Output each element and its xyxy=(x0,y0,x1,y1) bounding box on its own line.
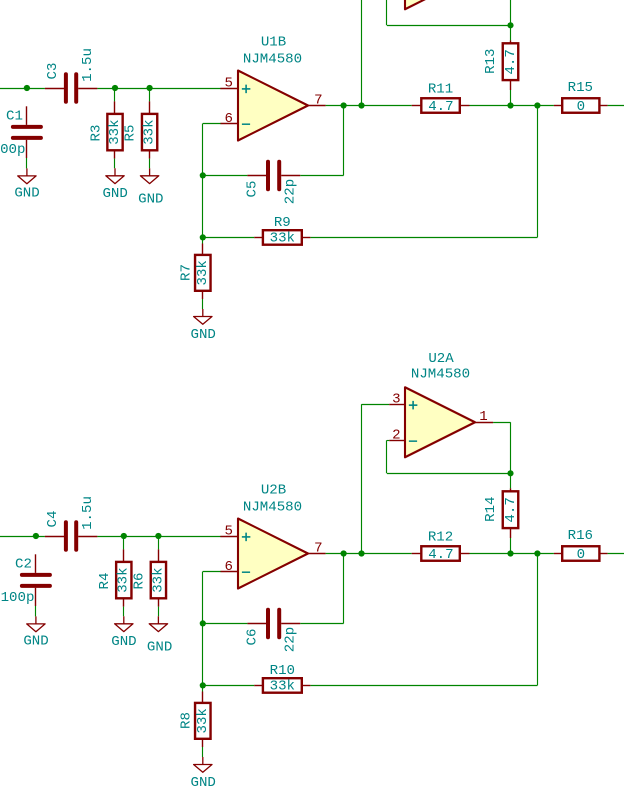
svg-text:C5: C5 xyxy=(245,181,261,198)
svg-text:R16: R16 xyxy=(568,528,593,544)
svg-text:C6: C6 xyxy=(245,629,261,646)
svg-text:22p: 22p xyxy=(283,627,299,652)
svg-text:6: 6 xyxy=(224,111,232,127)
svg-text:100p: 100p xyxy=(0,142,25,158)
svg-text:R4: R4 xyxy=(97,573,113,590)
svg-text:0: 0 xyxy=(577,547,585,563)
svg-text:GND: GND xyxy=(102,186,127,202)
svg-text:1.5u: 1.5u xyxy=(80,48,96,82)
svg-text:R12: R12 xyxy=(428,530,453,546)
svg-text:C3: C3 xyxy=(45,63,61,80)
svg-text:R11: R11 xyxy=(428,82,453,98)
svg-text:4.7: 4.7 xyxy=(428,547,453,563)
svg-text:U2A: U2A xyxy=(428,351,454,367)
svg-text:U1B: U1B xyxy=(261,35,286,51)
svg-text:NJM4580: NJM4580 xyxy=(411,367,470,383)
svg-text:33k: 33k xyxy=(142,119,158,144)
svg-text:R5: R5 xyxy=(123,125,139,142)
svg-text:4.7: 4.7 xyxy=(503,49,519,74)
svg-text:33k: 33k xyxy=(150,567,166,592)
svg-text:R3: R3 xyxy=(88,125,104,142)
svg-text:GND: GND xyxy=(191,327,216,343)
svg-text:100p: 100p xyxy=(1,590,35,606)
svg-text:R9: R9 xyxy=(274,215,291,231)
svg-text:33k: 33k xyxy=(116,567,132,592)
svg-text:U2B: U2B xyxy=(261,483,286,499)
svg-text:C1: C1 xyxy=(6,109,23,125)
svg-text:GND: GND xyxy=(14,186,39,202)
svg-text:1.5u: 1.5u xyxy=(80,496,96,530)
svg-text:5: 5 xyxy=(224,75,232,91)
svg-text:NJM4580: NJM4580 xyxy=(243,52,302,68)
svg-text:33k: 33k xyxy=(195,260,211,285)
svg-text:1: 1 xyxy=(479,409,487,425)
svg-text:33k: 33k xyxy=(107,119,123,144)
svg-text:R14: R14 xyxy=(483,497,499,522)
svg-text:R7: R7 xyxy=(179,264,195,281)
svg-text:7: 7 xyxy=(314,540,322,556)
svg-text:4.7: 4.7 xyxy=(503,497,519,522)
svg-text:NJM4580: NJM4580 xyxy=(243,500,302,516)
svg-text:R15: R15 xyxy=(568,80,593,96)
svg-text:6: 6 xyxy=(224,559,232,575)
svg-text:7: 7 xyxy=(314,92,322,108)
svg-text:33k: 33k xyxy=(270,679,295,695)
svg-text:GND: GND xyxy=(111,634,136,650)
svg-text:3: 3 xyxy=(392,392,400,408)
svg-text:2: 2 xyxy=(392,428,400,444)
svg-text:C4: C4 xyxy=(45,511,61,528)
svg-text:R10: R10 xyxy=(270,663,295,679)
svg-text:GND: GND xyxy=(191,775,216,791)
svg-text:22p: 22p xyxy=(283,179,299,204)
svg-text:GND: GND xyxy=(138,192,163,208)
svg-text:R13: R13 xyxy=(483,49,499,74)
svg-text:R8: R8 xyxy=(179,712,195,729)
svg-text:C2: C2 xyxy=(15,557,32,573)
svg-text:GND: GND xyxy=(23,634,48,650)
svg-text:33k: 33k xyxy=(195,708,211,733)
svg-text:R6: R6 xyxy=(132,573,148,590)
svg-text:0: 0 xyxy=(577,99,585,115)
svg-text:5: 5 xyxy=(224,523,232,539)
svg-text:33k: 33k xyxy=(270,231,295,247)
svg-text:4.7: 4.7 xyxy=(428,99,453,115)
svg-text:GND: GND xyxy=(147,640,172,656)
